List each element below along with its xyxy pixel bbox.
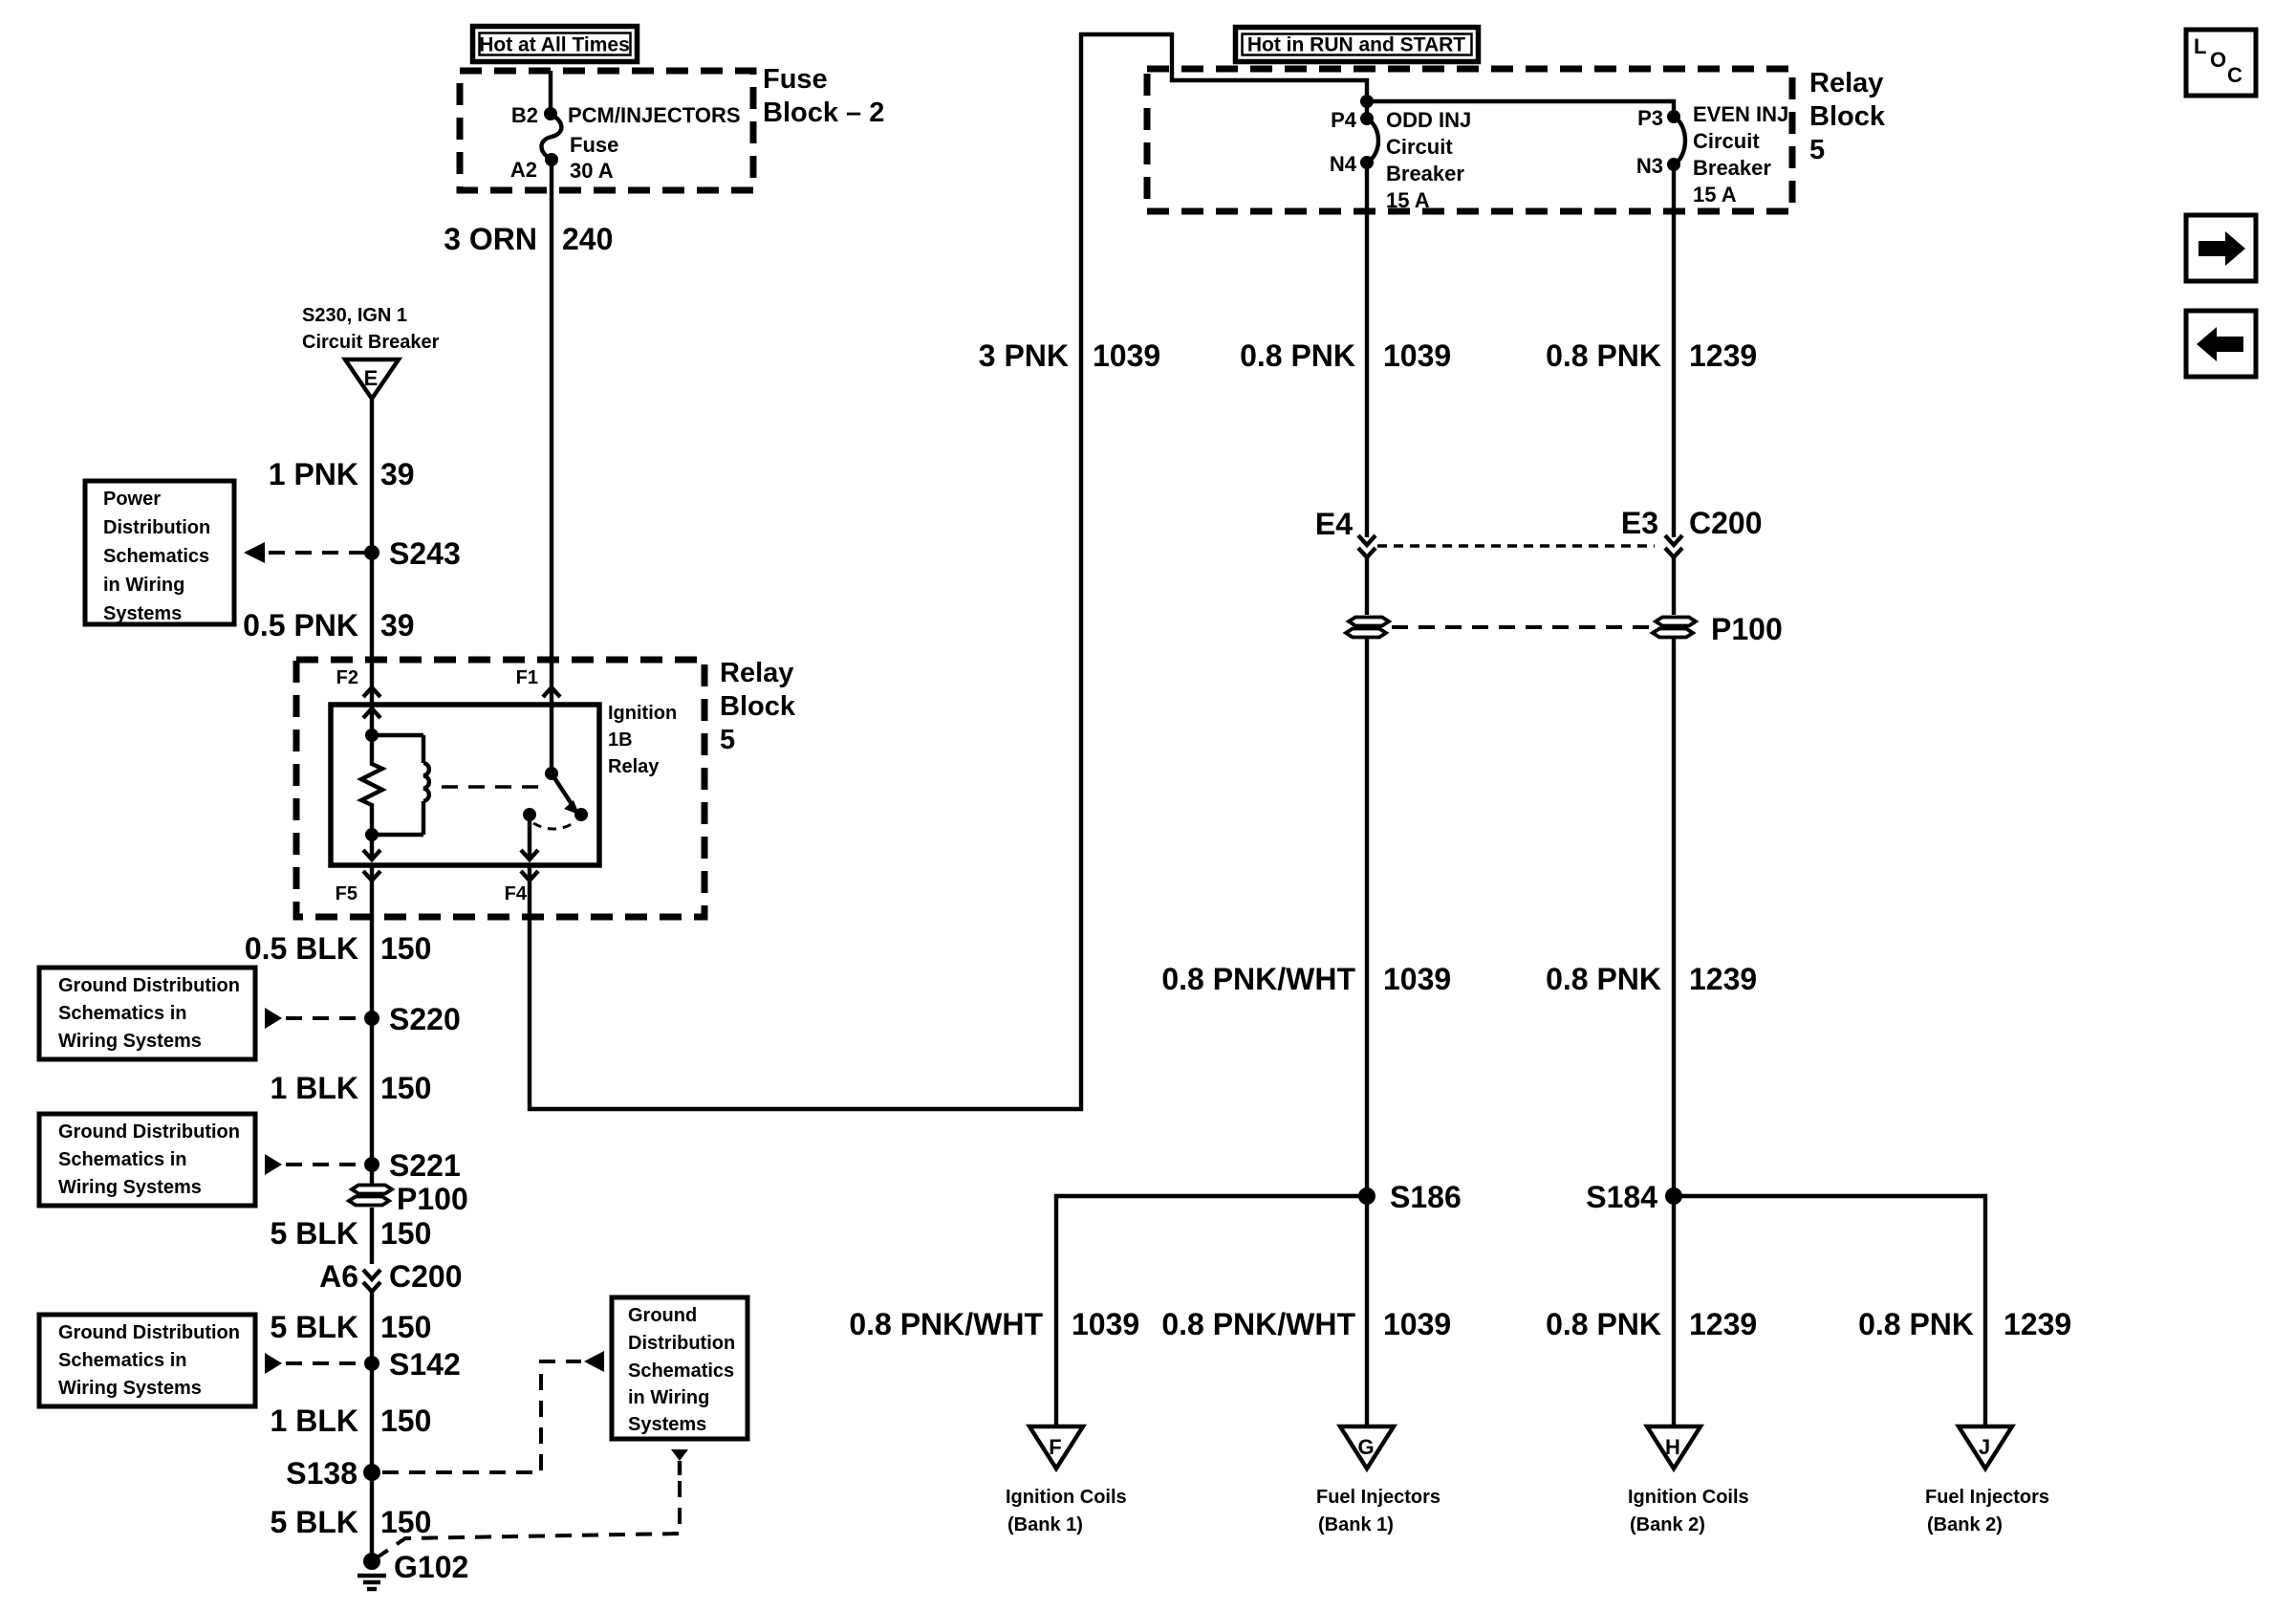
svg-text:39: 39 [380, 608, 415, 642]
node (coil top junction) [365, 729, 379, 742]
pin chevron F4 [521, 871, 538, 881]
svg-text:1039: 1039 [1093, 338, 1160, 373]
svg-text:5: 5 [1809, 135, 1825, 165]
pin chevron F5 [363, 871, 380, 881]
svg-text:Ground Distribution: Ground Distribution [58, 975, 240, 996]
wire coil to F5 [370, 835, 374, 860]
wire label 3 PNK 1039 [979, 338, 1160, 373]
svg-text:(Bank 2): (Bank 2) [1630, 1514, 1705, 1535]
svg-text:Wiring Systems: Wiring Systems [58, 1177, 202, 1198]
dashed arrow to S142 [265, 1353, 368, 1374]
wire into fuse [549, 71, 552, 114]
wire label 0.8 PNK 1239 (branch H) [1546, 1307, 1757, 1341]
header box "Hot at All Times" [473, 27, 638, 62]
svg-text:E3: E3 [1621, 506, 1658, 540]
relay switch (from F1) [550, 708, 553, 773]
svg-text:E4: E4 [1315, 507, 1353, 541]
svg-text:Ground: Ground [628, 1305, 697, 1326]
svg-text:3 PNK: 3 PNK [979, 338, 1069, 373]
svg-text:F: F [1049, 1435, 1061, 1459]
ignition 1B relay box [331, 705, 599, 865]
wire label 0.8 PNK 1239 [1546, 338, 1757, 373]
svg-text:P4: P4 [1331, 108, 1357, 132]
svg-text:0.8 PNK/WHT: 0.8 PNK/WHT [849, 1307, 1043, 1341]
svg-text:Circuit: Circuit [1386, 135, 1453, 159]
dashed arrow to S221 [265, 1154, 368, 1175]
svg-text:F2: F2 [336, 667, 358, 688]
node B2 [544, 107, 557, 120]
svg-text:P100: P100 [397, 1182, 468, 1216]
svg-text:Ground Distribution: Ground Distribution [58, 1322, 240, 1343]
svg-text:150: 150 [380, 1216, 431, 1251]
icon arrow right box [2186, 215, 2256, 281]
pin chevron F2 [370, 660, 374, 708]
svg-text:Fuse: Fuse [570, 133, 618, 157]
label "Fuse Block - 2" [763, 64, 884, 128]
svg-text:Fuse: Fuse [763, 64, 828, 95]
svg-text:A2: A2 [510, 158, 537, 182]
svg-text:1B: 1B [608, 729, 633, 751]
relay block 5 dashed box (left) [296, 660, 704, 917]
node P3 [1667, 110, 1680, 123]
svg-text:B2: B2 [511, 103, 538, 127]
wire S186 branch to F [1056, 1196, 1367, 1426]
svg-text:ODD INJ: ODD INJ [1386, 108, 1471, 132]
svg-text:15 A: 15 A [1693, 183, 1737, 207]
connector P100 (right grommet) [1653, 618, 1696, 638]
wire label 0.8 PNK 1239 (branch J) [1858, 1307, 2071, 1341]
dashed arrow to S220 [265, 1008, 368, 1029]
splice S186 [1358, 1187, 1375, 1205]
svg-text:P100: P100 [1711, 612, 1783, 646]
svg-text:S220: S220 [389, 1002, 461, 1036]
wire E3 to P100 [1672, 557, 1676, 615]
node A2 [545, 153, 558, 166]
svg-text:1239: 1239 [1689, 338, 1757, 373]
svg-text:Circuit: Circuit [1693, 129, 1760, 153]
svg-text:(Bank 1): (Bank 1) [1007, 1514, 1083, 1535]
svg-text:in Wiring: in Wiring [628, 1387, 709, 1408]
svg-text:Ignition Coils: Ignition Coils [1006, 1487, 1127, 1508]
svg-text:0.8 PNK: 0.8 PNK [1546, 962, 1661, 996]
resistor (relay) [361, 735, 382, 835]
svg-text:Distribution: Distribution [628, 1333, 735, 1354]
svg-text:1039: 1039 [1383, 962, 1451, 996]
circuit breaker EVEN INJ 15 A [1674, 117, 1685, 164]
svg-text:Schematics: Schematics [103, 546, 209, 567]
svg-text:3 ORN: 3 ORN [444, 222, 537, 256]
svg-text:F4: F4 [505, 883, 528, 904]
wire F5 down [370, 865, 374, 1018]
svg-text:C: C [2227, 63, 2242, 87]
svg-text:5: 5 [720, 725, 735, 755]
node P4 [1365, 101, 1369, 119]
svg-text:G102: G102 [394, 1550, 468, 1584]
svg-text:0.8 PNK/WHT: 0.8 PNK/WHT [1161, 962, 1355, 996]
wire N3 down to E3 [1672, 164, 1676, 537]
wire A2 down to relay F1 [550, 160, 553, 708]
svg-text:Circuit Breaker: Circuit Breaker [302, 332, 440, 353]
wire contact to F4 [528, 815, 531, 860]
svg-text:Distribution: Distribution [103, 517, 210, 538]
svg-text:Schematics in: Schematics in [58, 1350, 187, 1371]
svg-text:1039: 1039 [1072, 1307, 1139, 1341]
svg-text:1239: 1239 [1689, 962, 1757, 996]
svg-text:E: E [364, 366, 379, 390]
svg-text:S230, IGN 1: S230, IGN 1 [302, 305, 407, 326]
svg-text:Hot at All Times: Hot at All Times [479, 34, 630, 56]
svg-text:PCM/INJECTORS: PCM/INJECTORS [568, 103, 741, 127]
svg-text:Ignition: Ignition [608, 703, 677, 724]
svg-text:Fuel Injectors: Fuel Injectors [1925, 1487, 2049, 1508]
svg-text:C200: C200 [1689, 506, 1763, 540]
wire P100 to C200 [370, 1208, 374, 1264]
svg-text:Power: Power [103, 489, 161, 510]
icon LOC box [2186, 30, 2256, 96]
svg-text:15 A: 15 A [1386, 188, 1430, 212]
dashed connector link E4-E3 [1377, 544, 1655, 548]
svg-text:0.8 PNK: 0.8 PNK [1858, 1307, 1974, 1341]
svg-text:C200: C200 [389, 1259, 463, 1294]
off-page connector H [1628, 1426, 1749, 1535]
splice S243 [364, 545, 379, 560]
svg-text:1 PNK: 1 PNK [269, 457, 358, 491]
svg-text:A6: A6 [319, 1259, 358, 1294]
wire label 5 BLK 150 [271, 1216, 432, 1251]
pin chevron F1 [543, 687, 560, 697]
wire label 5 BLK 150 [271, 1310, 432, 1344]
svg-text:150: 150 [380, 1505, 431, 1539]
svg-text:Block: Block [720, 691, 796, 722]
svg-text:5 BLK: 5 BLK [271, 1216, 358, 1251]
label Relay Block 5 [720, 658, 796, 755]
wire label 0.8 PNK/WHT 1039 (branch F) [849, 1307, 1139, 1341]
svg-text:1239: 1239 [2004, 1307, 2071, 1341]
wire S220 to S221 [370, 1018, 374, 1165]
box Ground Distribution Schematics in Wiring Systems (4) [612, 1297, 747, 1439]
dashed arrow to Power box [244, 542, 368, 563]
svg-text:30 A: 30 A [570, 159, 614, 183]
coil (relay winding) [423, 735, 429, 835]
svg-text:F1: F1 [516, 667, 538, 688]
box Ground Distribution Schematics in Wiring Systems (3) [39, 1315, 255, 1406]
wire label 5 BLK 150 [271, 1505, 432, 1539]
svg-text:Wiring Systems: Wiring Systems [58, 1378, 202, 1399]
dashed reference S138 to ground box [382, 1351, 604, 1472]
svg-text:in Wiring: in Wiring [103, 575, 184, 596]
wire label 0.5 PNK 39 [243, 608, 415, 642]
wire S142 to S138 [370, 1363, 374, 1472]
connector C200 pin E3 [1621, 506, 1763, 557]
label Relay Block 5 [1809, 68, 1886, 165]
connector C200 pin E4 [1315, 507, 1375, 557]
splice S221 [364, 1157, 379, 1172]
svg-text:Schematics in: Schematics in [58, 1149, 187, 1170]
off-page connector F [1006, 1426, 1127, 1535]
wire S184 branch to J [1674, 1196, 1985, 1426]
svg-text:0.8 PNK: 0.8 PNK [1546, 338, 1661, 373]
svg-text:Schematics: Schematics [628, 1361, 734, 1382]
connector C200 pin A6 [319, 1259, 462, 1294]
wire P100 to S184 [1672, 637, 1676, 1196]
svg-text:N4: N4 [1330, 152, 1357, 176]
fuse block 2 dashed box [460, 71, 753, 190]
svg-text:39: 39 [380, 457, 415, 491]
wire label 0.8 PNK/WHT 1039 (branch G) [1161, 1307, 1451, 1341]
svg-text:5 BLK: 5 BLK [271, 1310, 358, 1344]
svg-text:Fuel Injectors: Fuel Injectors [1316, 1487, 1440, 1508]
wire S138 to G102 [370, 1472, 374, 1558]
svg-text:P3: P3 [1637, 106, 1663, 130]
splice S184 [1665, 1187, 1682, 1205]
header box "Hot in RUN and START" [1236, 28, 1479, 62]
wire junction to P3 branch [1360, 95, 1374, 108]
wire label 3 ORN 240 [444, 222, 613, 256]
svg-text:(Bank 2): (Bank 2) [1927, 1514, 2003, 1535]
svg-text:Block: Block [1809, 101, 1886, 132]
svg-text:L: L [2194, 34, 2206, 58]
wire label 1 BLK 150 [271, 1071, 432, 1105]
svg-text:F5: F5 [336, 883, 357, 904]
wire E4 to P100 [1365, 557, 1369, 615]
off-page connector G [1316, 1426, 1440, 1535]
svg-text:S184: S184 [1586, 1180, 1657, 1214]
svg-text:1 BLK: 1 BLK [271, 1071, 358, 1105]
wire S184 down to H [1672, 1196, 1676, 1426]
svg-text:S138: S138 [286, 1456, 357, 1491]
svg-text:Breaker: Breaker [1386, 162, 1464, 185]
svg-text:N3: N3 [1636, 154, 1663, 178]
svg-text:150: 150 [380, 1071, 431, 1105]
splice S138 [363, 1464, 380, 1481]
svg-text:O: O [2210, 48, 2226, 72]
switch blade with arrowhead [552, 773, 572, 804]
relay block 5 dashed box (right) [1147, 69, 1792, 211]
box Ground Distribution Schematics in Wiring Systems (1) [39, 968, 255, 1059]
svg-text:Ignition Coils: Ignition Coils [1628, 1487, 1749, 1508]
svg-text:Breaker: Breaker [1693, 156, 1771, 180]
splice S220 [364, 1011, 379, 1026]
svg-text:S243: S243 [389, 536, 461, 571]
dashed actuation link [442, 785, 547, 789]
wire label 0.5 BLK 150 [245, 931, 432, 966]
wire C200 to S142 [370, 1292, 374, 1363]
svg-text:240: 240 [562, 222, 613, 256]
svg-text:5 BLK: 5 BLK [271, 1505, 358, 1539]
fuse PCM/INJECTORS 30 A [541, 114, 561, 160]
circuit breaker symbol E (triangle) [345, 359, 399, 399]
svg-text:EVEN INJ: EVEN INJ [1693, 102, 1788, 126]
svg-text:Wiring Systems: Wiring Systems [58, 1031, 202, 1052]
wire S221 to P100 [370, 1165, 374, 1186]
wire F4 down and across to right section [530, 34, 1367, 1109]
svg-text:0.8 PNK: 0.8 PNK [1240, 338, 1355, 373]
node (coil bottom junction) [365, 828, 379, 841]
wire label 0.8 PNK 1039 [1240, 338, 1451, 373]
circuit breaker ODD INJ 15 A [1367, 119, 1378, 163]
svg-text:Relay: Relay [720, 658, 793, 688]
svg-text:0.8 PNK/WHT: 0.8 PNK/WHT [1161, 1307, 1355, 1341]
svg-text:Systems: Systems [628, 1414, 706, 1435]
svg-text:1239: 1239 [1689, 1307, 1757, 1341]
svg-text:(Bank 1): (Bank 1) [1318, 1514, 1394, 1535]
svg-text:S186: S186 [1390, 1180, 1462, 1214]
svg-text:150: 150 [380, 1404, 431, 1438]
svg-text:1 BLK: 1 BLK [271, 1404, 358, 1438]
wire S186 down to G [1365, 1196, 1369, 1426]
svg-text:G: G [1357, 1435, 1374, 1459]
svg-text:0.8 PNK: 0.8 PNK [1546, 1307, 1661, 1341]
node N3 [1667, 158, 1680, 171]
icon arrow left box [2186, 311, 2256, 377]
svg-text:Systems: Systems [103, 603, 182, 624]
svg-text:150: 150 [380, 931, 431, 966]
dashed travel arc [533, 821, 576, 829]
ground G102 [357, 1550, 468, 1589]
wire P100 to S186 [1365, 637, 1369, 1196]
wire label 0.8 PNK/WHT 1039 [1161, 962, 1451, 996]
svg-text:Hot in RUN and START: Hot in RUN and START [1247, 34, 1465, 56]
svg-text:H: H [1665, 1435, 1680, 1459]
wire E down to S243 [370, 399, 374, 660]
relay coil-side terminal arrow (from F2) [363, 708, 380, 718]
connector P100 (left grommet) [349, 1186, 392, 1206]
box Power Distribution Schematics in Wiring Systems [85, 481, 234, 624]
wire N4 down to E4 [1365, 163, 1369, 537]
svg-text:Relay: Relay [1809, 68, 1883, 98]
svg-text:1039: 1039 [1383, 338, 1451, 373]
svg-text:0.5 PNK: 0.5 PNK [243, 608, 358, 642]
svg-text:Block – 2: Block – 2 [763, 98, 884, 128]
svg-text:Schematics in: Schematics in [58, 1003, 187, 1024]
box Ground Distribution Schematics in Wiring Systems (2) [39, 1114, 255, 1206]
svg-text:J: J [1979, 1435, 1990, 1459]
dashed arrow ground box to G102 [376, 1449, 688, 1558]
dashed connector link P100 [1392, 625, 1650, 629]
connector P100 (middle grommet) [1346, 618, 1389, 638]
node N4 [1360, 156, 1374, 169]
splice S142 [364, 1356, 379, 1371]
wire label 1 PNK 39 [269, 457, 415, 491]
wire label 1 BLK 150 [271, 1404, 432, 1438]
svg-text:S221: S221 [389, 1148, 461, 1183]
wire label 0.8 PNK 1239 [1546, 962, 1757, 996]
svg-text:Ground Distribution: Ground Distribution [58, 1121, 240, 1143]
svg-text:Relay: Relay [608, 756, 660, 777]
svg-text:150: 150 [380, 1310, 431, 1344]
svg-text:0.5 BLK: 0.5 BLK [245, 931, 358, 966]
label S230 IGN 1 Circuit Breaker [302, 305, 440, 353]
svg-text:1039: 1039 [1383, 1307, 1451, 1341]
off-page connector J [1925, 1426, 2049, 1535]
svg-text:S142: S142 [389, 1347, 461, 1382]
switch contact to F4 [523, 808, 536, 821]
